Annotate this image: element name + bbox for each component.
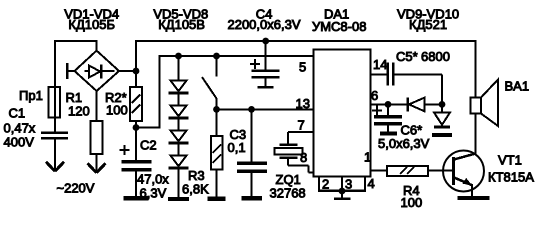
svg-text:5,0x6,3V: 5,0x6,3V [378, 136, 430, 151]
svg-text:Пр1: Пр1 [19, 88, 43, 103]
svg-text:120: 120 [68, 104, 90, 119]
svg-text:2200,0x6,3V: 2200,0x6,3V [227, 17, 300, 32]
svg-text:BA1: BA1 [505, 79, 530, 94]
svg-text:14: 14 [373, 57, 387, 72]
svg-text:6: 6 [371, 88, 378, 103]
svg-text:100: 100 [106, 103, 128, 118]
svg-text:400V: 400V [4, 135, 35, 150]
svg-text:13: 13 [296, 96, 310, 111]
svg-text:КТ815А: КТ815А [488, 170, 534, 185]
svg-text:КД105В: КД105В [158, 17, 205, 32]
svg-text:C1: C1 [9, 106, 26, 121]
svg-text:47,0x: 47,0x [137, 172, 169, 187]
svg-text:3: 3 [345, 177, 352, 192]
svg-text:УМС8-08: УМС8-08 [312, 19, 367, 34]
svg-text:8: 8 [300, 150, 307, 165]
svg-text:7: 7 [298, 118, 305, 133]
svg-text:6,3V: 6,3V [140, 186, 167, 201]
svg-text:VT1: VT1 [498, 153, 522, 168]
svg-text:5: 5 [299, 60, 306, 75]
svg-text:2: 2 [322, 177, 329, 192]
svg-text:~220V: ~220V [57, 181, 95, 196]
svg-text:C2: C2 [140, 138, 157, 153]
svg-text:6,8K: 6,8K [182, 182, 209, 197]
svg-text:КД105Б: КД105Б [68, 17, 115, 32]
svg-text:1: 1 [364, 150, 371, 165]
svg-text:32768: 32768 [270, 186, 306, 201]
svg-text:0,1: 0,1 [228, 140, 246, 155]
svg-text:100: 100 [401, 195, 423, 210]
svg-text:C5*: C5* [396, 49, 418, 64]
svg-text:КД521: КД521 [409, 17, 447, 32]
svg-text:0,47x: 0,47x [4, 121, 36, 136]
svg-text:6800: 6800 [421, 49, 450, 64]
svg-text:4: 4 [368, 176, 375, 191]
